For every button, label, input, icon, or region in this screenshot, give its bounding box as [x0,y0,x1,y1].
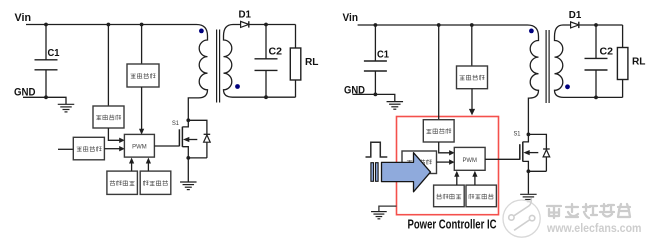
svg-text:Vin: Vin [343,12,359,24]
transformer T1 secondary winding [224,25,241,98]
transformer core [216,30,218,103]
block overheat protection (过热保护) [107,171,137,194]
junction dot drain (right) [527,133,531,137]
wire drain branch to body diode (right) [528,134,546,148]
block PWM controller U1 [124,134,154,157]
wire rail to C1 (right) [374,25,376,61]
block startup circuit 启动电路 (right) [457,66,488,89]
block undervoltage protection 欠压保护 (right) [423,120,454,142]
wire D1 cathode to output node [249,24,296,26]
svg-text:D1: D1 [569,10,582,21]
block undervoltage protection (欠压保护) [93,106,124,128]
wire GND rail (right) [353,94,395,101]
block compensation circuit (补偿电路) [140,171,171,194]
capacitor C2 (right) [585,57,608,59]
capacitor C1 [35,59,58,61]
pulse waveform symbol (gate drive input) [366,142,388,157]
transformer T2 secondary winding (right) [555,25,571,97]
junction dot rail-UVP (right) [437,23,441,27]
wire output to C2 (right) [595,25,597,58]
junction dot rail-startup (right) [470,23,474,27]
diode D1 [241,21,249,27]
transformer polarity dot primary (right) [529,29,534,34]
junction dot drain [186,118,190,122]
svg-text:C1: C1 [377,50,389,61]
svg-text:D1: D1 [239,10,252,21]
transformer T2 primary winding (right) [528,37,538,135]
svg-text:S1: S1 [172,120,179,127]
block startup circuit (启动电路) [127,64,159,87]
junction dot rail-C1 (right) [374,23,378,27]
ground symbol IC (right) [371,211,387,213]
wire rail to undervoltage-protection box [107,25,109,107]
svg-text:RL: RL [632,57,646,68]
wire output to RL (right) [622,25,624,48]
ground symbol (power stage) [180,181,197,183]
wire diode bottom to source [188,157,207,159]
diode D1 (right) [571,22,579,28]
wire diode bottom to source (right) [528,170,546,172]
junction dot rail-startup [140,23,144,27]
transformer polarity dot secondary [235,84,240,89]
svg-text:RL: RL [305,57,319,68]
wire Vin top rail (right) [358,25,539,37]
resistor RL [290,48,301,80]
capacitor C2 [255,58,278,60]
diode body/snubber across S1 [204,134,211,158]
wire secondary bottom rail [240,96,296,98]
junction dot output bottom (right) [594,96,598,100]
junction dot source [186,156,190,160]
ground symbol input (right) [387,101,404,103]
wire rail to startup box [141,25,143,65]
transformer polarity dot secondary (right) [565,84,570,89]
wire Vin top rail [26,25,208,37]
outline Power Controller IC (red box) [397,117,499,215]
svg-text:C2: C2 [269,47,283,58]
wire short-circuit-protection to PWM arrow up (right) [456,176,458,185]
junction dot GND-C1 [44,95,48,99]
wire output to C2 [265,25,267,59]
wire startup arrow down into IC (right) [471,89,473,109]
wire compensation to PWM arrow up [147,163,149,172]
wire stub into remote-control box [58,148,73,150]
speed bar 1 of blue arrow [371,163,374,182]
wire C2 to bottom rail (right) [595,70,597,97]
block remote control 远程控制 (right) [402,151,437,174]
junction dot output top (right) [594,23,598,27]
wire RL to bottom rail [295,80,297,97]
wire overheat-protection to PWM arrow up [131,163,133,172]
transistor S1 MOSFET (right) [520,134,539,171]
wire drain branch to body diode [188,120,207,134]
watermark logo circle [503,200,540,237]
watermark text 电子发烧友 [547,206,561,218]
transformer core (right) [545,30,547,103]
wire secondary bottom rail (right) [570,96,623,98]
wire compensation to PWM arrow up (right) [474,176,476,185]
junction dot output bottom [264,95,268,99]
svg-text:C1: C1 [48,48,60,59]
block compensation circuit 补偿电路 (right) [466,185,496,207]
wire remote-control to PWM with arrow (right) [437,161,450,163]
capacitor C1 (right) [364,60,387,62]
junction dot rail-C1 [44,23,48,27]
ground symbol power stage (right) [520,193,537,195]
junction dot source (right) [527,169,531,173]
wire rail to undervoltage-protection box (right) [438,25,440,120]
ground symbol (input) [58,103,75,105]
resistor RL (right) [617,48,628,80]
wire output to RL [295,25,297,49]
wire RL to bottom rail (right) [622,80,624,98]
wire PWM output to gate of S1 [154,145,179,147]
wire remote-control to PWM with arrow [104,148,119,150]
junction dot GND-C1 (right) [374,93,378,97]
wire rail to startup box (right) [471,25,473,66]
block remote control (远程控制) [73,137,104,160]
wire startup to PWM arrow down [141,87,143,129]
wire rail to C1 [45,25,47,60]
wire PWM output to gate of S1 (right) [485,158,520,160]
block short-circuit protection 短路保护 (right) [434,185,465,207]
svg-text:S1: S1 [514,131,521,138]
watermark logo connector icon [509,198,535,230]
junction dot output top [264,23,268,27]
wire IC to ground (left of red box) [379,206,397,211]
transformer T1 primary winding [188,36,207,120]
block PWM controller (right) [454,147,485,170]
blue block arrow (points into IC) [382,153,431,192]
wire C1 to GND rail [45,70,47,98]
wire GND rail [23,97,66,104]
svg-text:PWM: PWM [462,157,477,164]
transformer polarity dot primary [199,29,204,34]
svg-text:www.elecfans.com: www.elecfans.com [546,223,641,235]
svg-text:Power Controller IC: Power Controller IC [408,217,497,232]
svg-text:PWM: PWM [132,144,147,151]
wire C2 to bottom rail [265,70,267,97]
wire D1 cathode to output node (right) [579,24,623,26]
wire C1 to GND rail (right) [374,71,376,94]
wire source to ground [187,158,189,182]
diode across S1 (right) [543,149,550,171]
svg-text:Vin: Vin [15,12,32,24]
wire source to ground (right) [527,171,529,194]
wire UVP to PWM with arrow (right) [439,142,450,153]
transistor S1 (MOSFET) [179,120,197,158]
wire UVP to PWM with arrow [108,128,119,140]
svg-text:C2: C2 [600,47,614,58]
junction dot rail-UVP [107,23,111,27]
speed bar 2 of blue arrow [376,163,379,182]
